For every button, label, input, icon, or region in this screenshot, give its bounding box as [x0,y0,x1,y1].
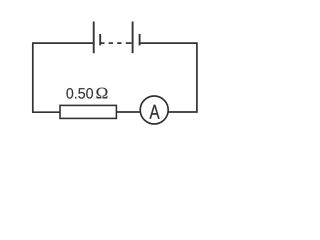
value label 0.50 [66,88,93,99]
battery cell 2 long plate [132,22,134,54]
ammeter letter A [149,105,159,119]
ammeter circle [140,96,168,124]
battery cell 1 long plate [93,22,95,54]
unit label ohm [96,88,107,99]
battery cell 2 short plate [139,34,141,46]
resistor R 0.50 ohm (box) [60,105,116,118]
wire: top-right and right side [140,43,197,112]
battery cell 1 short plate [99,34,101,46]
wire: top-left and left side [33,43,94,112]
wire: resistor to ammeter [116,111,140,113]
dashed wire between battery cells [100,42,104,44]
